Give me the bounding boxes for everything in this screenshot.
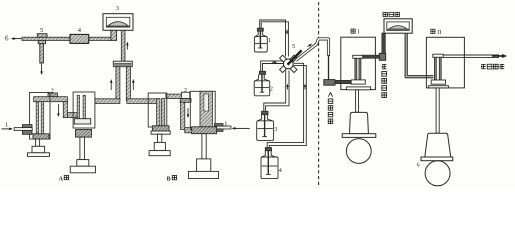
pump B right cylinder housing [190, 91, 215, 129]
bottle 2 pipe flow arrow right [272, 61, 277, 63]
pump A left cylinder bore [36, 102, 44, 134]
pump B inlet arrow [232, 127, 250, 130]
wire: pump II outlet pipe to column [443, 55, 499, 57]
pump II crosshead [425, 133, 451, 157]
wire: damper down pipe and elbow to pump II [406, 33, 433, 77]
damper 3 inner diaphragm dome [106, 17, 130, 27]
pump B right cylinder lower flange [192, 127, 217, 134]
pump I eccentric cam circle [346, 139, 371, 164]
svg-text:5: 5 [40, 27, 43, 34]
pump A right stand [70, 160, 95, 173]
damper diaphragm dome [387, 22, 409, 31]
pump B transfer down arrow [187, 108, 190, 118]
wire: horizontal pipe pump A to left down pipe [95, 99, 120, 104]
pump A right cylinder housing [73, 92, 95, 128]
wire: drain pipe below valve 5 [40, 44, 44, 63]
svg-text:6: 6 [417, 162, 420, 168]
pump I outlet check valve fitting [379, 53, 385, 60]
pump B left stand [149, 131, 170, 156]
pump I crosshead plate [342, 134, 376, 138]
svg-text:B: B [167, 177, 171, 183]
bottle 4 [261, 148, 278, 179]
svg-text:4: 4 [279, 168, 282, 174]
pump I cylinder [347, 55, 371, 90]
pump A right cylinder collar [74, 119, 90, 124]
label 泵 II [431, 29, 442, 36]
wire: top horizontal pipe left span (6 to filter 4) [22, 37, 70, 40]
merge collar tee [113, 61, 132, 66]
pump A left stand [28, 139, 50, 156]
label 5 (selector valve) [292, 44, 295, 50]
damper 阻尼器 box [384, 19, 412, 33]
wire: pump A transfer horizontal pipe into right cylinder [67, 113, 77, 118]
wire: pump I outlet pipe to outlet check valve [363, 55, 380, 58]
bottle 1 [254, 28, 267, 52]
outlet arrow to column [492, 54, 507, 58]
pump II eccentric cam circle [425, 161, 450, 186]
wire: pump A top manifold pipe [34, 97, 68, 102]
pump II crosshead plate [421, 157, 453, 161]
pump I piston rod [356, 90, 359, 112]
wire: left down pipe from collar [116, 67, 120, 101]
riser up-flow arrow [126, 42, 129, 50]
wire: valve outlet diagonal pipe and elbow down to pump I inlet valve [296, 39, 329, 80]
bottle 3 [257, 111, 274, 140]
pump II housing box [426, 37, 464, 88]
pump A left cylinder bottom flange [33, 134, 49, 139]
pump B right stand [188, 159, 218, 179]
label 2 (pump A check valve) [51, 88, 54, 95]
入口单向阀 vertical label [328, 92, 333, 123]
label 4 [78, 27, 82, 34]
dashed separator line [318, 2, 320, 187]
wire: valve right port right, down and left to bottle 4 [267, 63, 306, 147]
label A泵 [59, 177, 64, 183]
svg-text:1: 1 [268, 38, 271, 44]
bottle 4 pipe flow arrow up [304, 84, 306, 90]
pump B inlet check valve flanges [215, 124, 232, 132]
pump I housing box [341, 37, 376, 89]
pump A right piston rod [80, 137, 85, 160]
damper 3 outer box [103, 14, 133, 31]
出口单向阀 vertical label [382, 65, 387, 98]
svg-text:II: II [438, 30, 442, 36]
bottle 3 pipe flow arrow up [286, 84, 288, 90]
svg-text:3: 3 [116, 5, 119, 12]
pump B check valve hatched body [180, 99, 191, 103]
label 4 (bottle) [279, 168, 282, 174]
label 6 (outlet) [5, 35, 9, 43]
pump I crosshead [350, 112, 369, 133]
valve 5 lower collar [38, 40, 45, 43]
wire: bottle 2 tube to valve left port [261, 61, 284, 71]
outlet arrow pointing left [11, 37, 22, 40]
svg-text:6: 6 [5, 35, 9, 43]
至色谱柱 label [481, 64, 504, 69]
label 1 (pump A inlet) [5, 121, 8, 128]
label 5 [40, 27, 43, 34]
wire: top horizontal pipe right span (filter 4 to damper stub) [89, 37, 112, 40]
wire: horizontal pipe right down pipe to pump B [127, 99, 157, 104]
pump B right cylinder hatched piston column [200, 91, 212, 127]
label 2 (bottle) [270, 86, 273, 92]
label B泵 [167, 177, 171, 183]
bottle 1 pipe flow arrow down [286, 30, 288, 35]
left up-flow arrow [110, 79, 113, 90]
svg-text:I: I [358, 30, 360, 36]
svg-text:3: 3 [274, 127, 277, 133]
svg-text:A: A [59, 177, 64, 183]
wire: right down pipe from collar [126, 67, 130, 101]
pump A check valve box [48, 93, 58, 97]
wire: inlet valve to pump I cylinder [335, 80, 352, 83]
wire: stub pipe from damper 3 down-left to top pipe [111, 30, 117, 40]
pump A left cylinder housing [30, 93, 50, 140]
pump I inlet check valve fitting [324, 80, 335, 86]
wire: outlet valve riser to damper [382, 33, 386, 54]
svg-text:5: 5 [292, 44, 295, 50]
label 3 (bottle) [274, 127, 277, 133]
pump A right cylinder lower flange [76, 130, 92, 138]
pump B check valve box [181, 92, 189, 98]
diagonal pipe flow arrow [308, 44, 313, 47]
valve 5 body on pipe [37, 34, 47, 38]
svg-text:2: 2 [270, 86, 273, 92]
svg-text:1: 1 [5, 121, 8, 128]
selector valve 5 [280, 50, 302, 72]
wire: pump B bottom transfer pipe to right cylinder [185, 128, 193, 133]
label 1 (pump B inlet) [224, 121, 227, 128]
pump B left cylinder bottom flange [152, 126, 169, 131]
label 3 [116, 5, 119, 12]
label 1 (bottle) [268, 38, 271, 44]
pump II cylinder [429, 54, 449, 88]
pump II piston rod [436, 88, 439, 133]
pump B left cylinder bore [157, 99, 165, 127]
wire: riser pipe from merge collar up to damper 3 [121, 30, 125, 61]
label 泵 I [351, 29, 360, 36]
wire: pump B top pipe from left cylinder [166, 94, 182, 98]
pump A right cylinder bore [77, 95, 85, 118]
label 6 (drive) [417, 162, 420, 168]
pump B left cylinder housing [148, 93, 167, 127]
right up-flow arrow [132, 79, 135, 90]
pump B right piston rod [202, 134, 206, 159]
pump A inlet check valve flanges [14, 125, 32, 135]
pump A transfer down arrow [57, 104, 60, 117]
filter 4 [70, 34, 89, 43]
wire: pump A transfer down pipe [63, 102, 67, 118]
drain arrow down [40, 64, 43, 76]
wire: pump B transfer down pipe [181, 102, 185, 129]
wire: valve bottom port down and left to bottle 3 [264, 71, 289, 112]
bottle 2 [254, 71, 270, 96]
pump A inlet arrow [2, 128, 13, 131]
阻尼器 label [383, 12, 399, 16]
wire: bottle 1 tube to valve (up, right, down) [260, 20, 289, 57]
label 2 (pump B check valve) [184, 87, 187, 94]
